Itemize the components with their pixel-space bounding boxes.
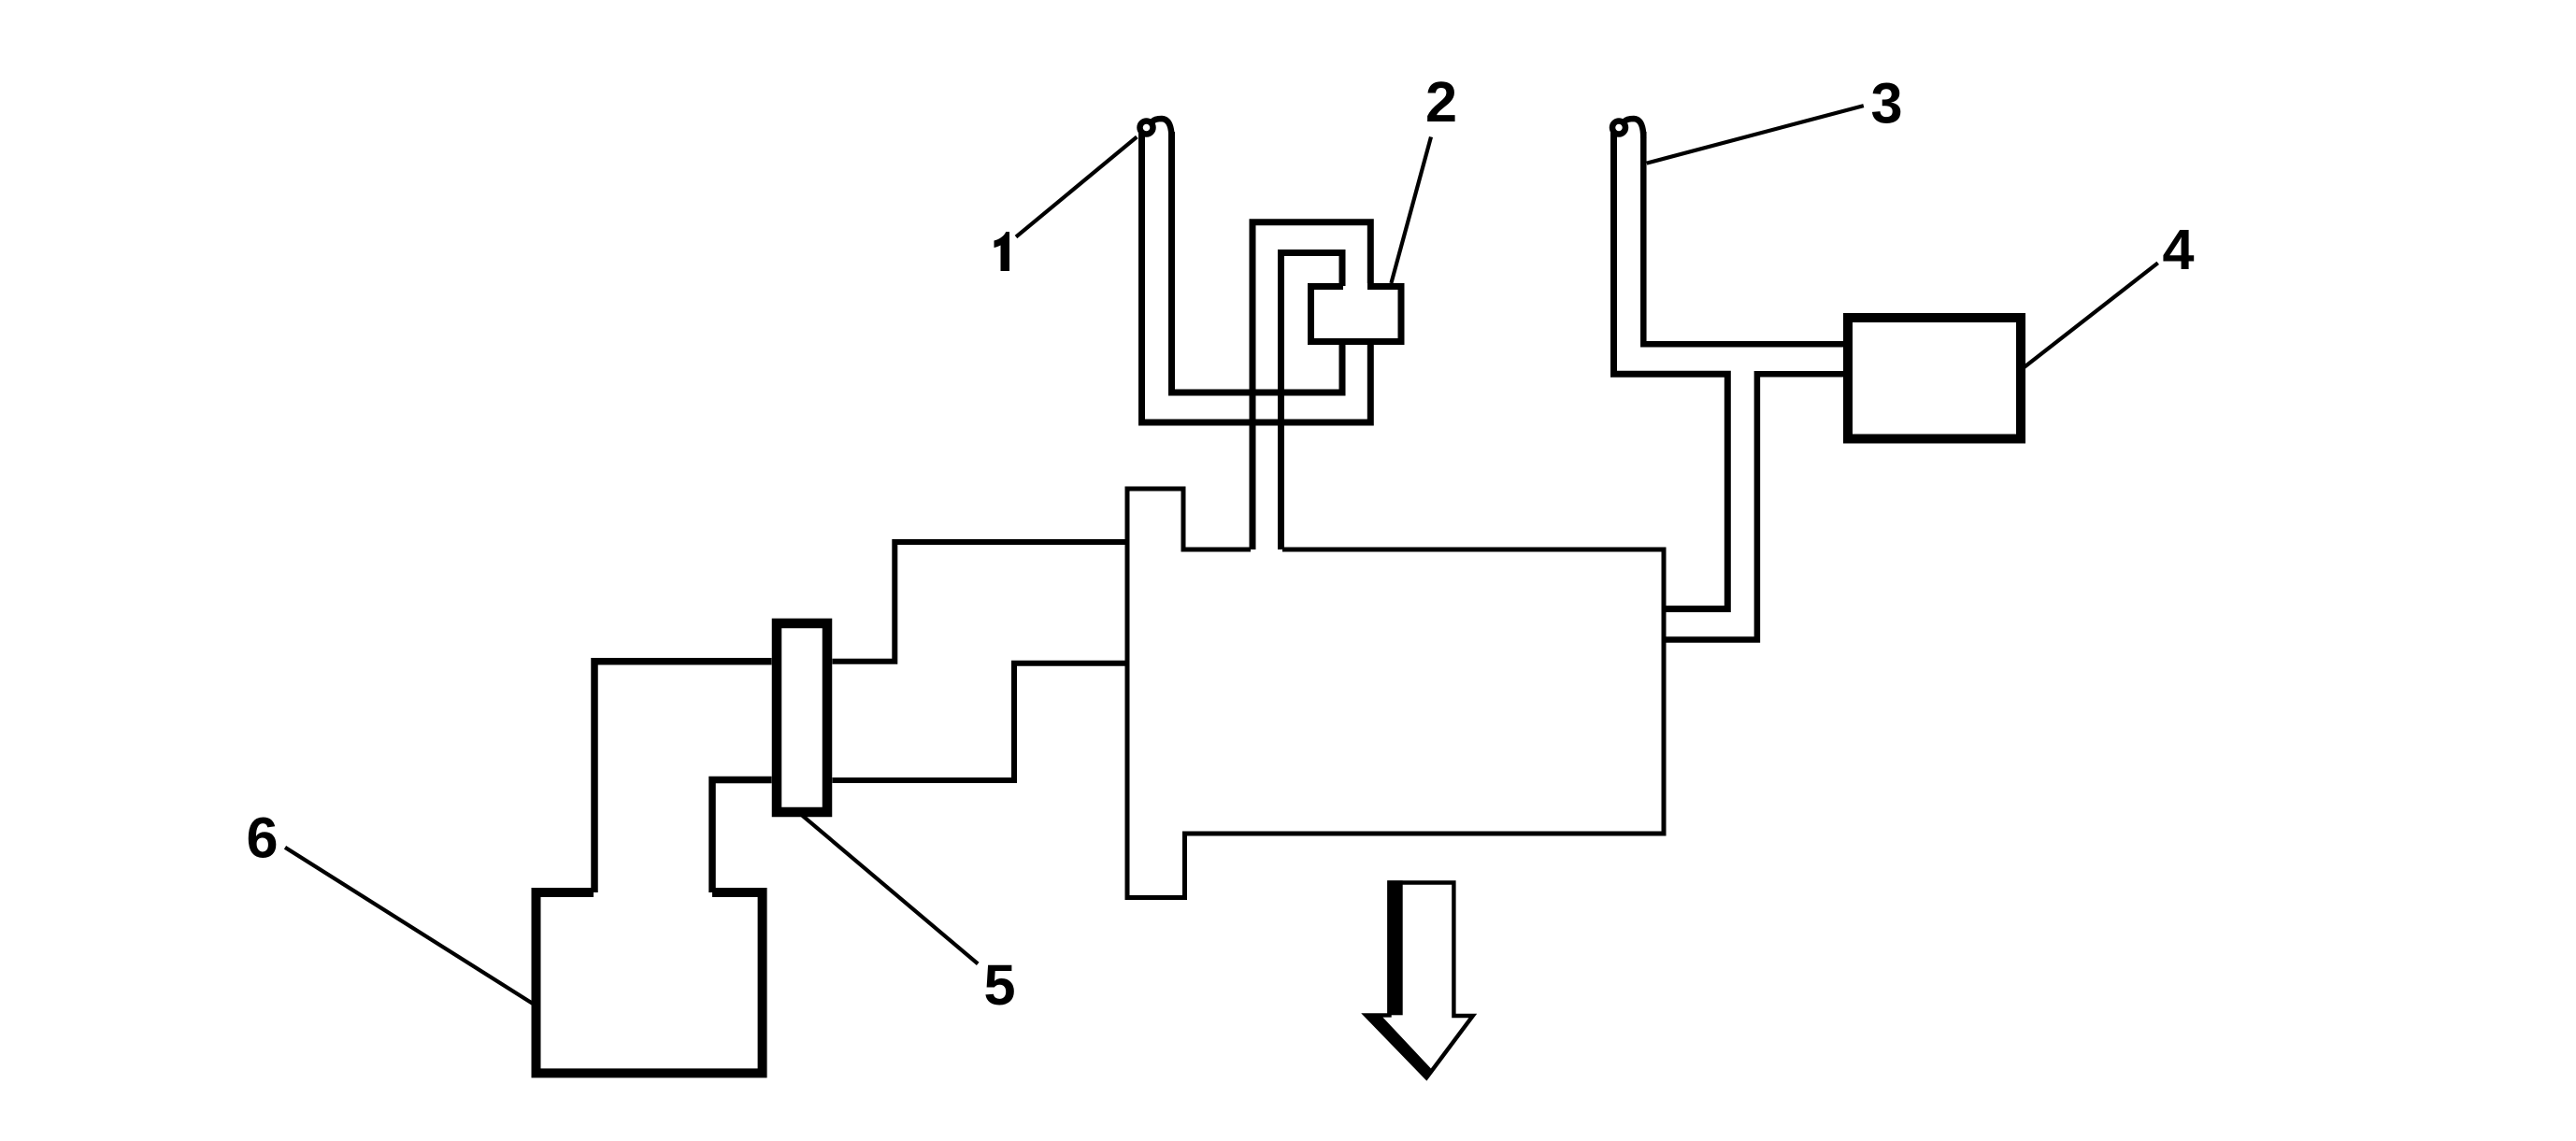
component 4 box [1848, 318, 2021, 439]
hose 1 inner wall: vent tube, bottom run, up to component 2 bottom [1172, 132, 1343, 392]
lower hose from connector 5 to canister flange [833, 663, 1128, 780]
duct inner wall from component 6 up to connector 5 [712, 780, 772, 893]
flow arrow thick left shaft bar [1387, 880, 1403, 1015]
hose 1 rolled end curl [1140, 121, 1153, 135]
hose 3 inner wall: down and right to component 4 [1643, 132, 1847, 344]
svg-text:4: 4 [2163, 218, 2195, 281]
leader line 1 [1016, 137, 1137, 237]
hose 1 outer wall upper loop: from component 2 top over coil top and down into canister port [1252, 222, 1370, 549]
leader line 3 [1647, 106, 1864, 164]
upper hose from connector 5 to canister flange [833, 542, 1128, 662]
svg-text:2: 2 [1425, 70, 1457, 134]
leader line 6 [285, 848, 533, 1004]
component 6 box with duct opening on top [537, 892, 763, 1073]
component 2 box (inline valve) with hose opening on top [1311, 287, 1402, 342]
flow arrow thick left barb diagonal [1366, 1015, 1431, 1077]
hose 3 outer wall: down, right along bottom, tee drop to canister right port upper wall [1614, 132, 1728, 609]
leader line 2 [1391, 137, 1431, 284]
svg-text:3: 3 [1871, 72, 1903, 135]
leader line 5 [798, 812, 978, 963]
leader line 4 [2025, 263, 2158, 366]
duct outer wall from component 6 up to connector 5 [594, 662, 772, 892]
hose 1 outer wall: vent tube down, along bottom, up right side of coil [1142, 132, 1371, 422]
hose 1 inner wall upper loop: from component 2 top, over inner coil top, down canister port pipe [1281, 253, 1343, 550]
hose 3 rolled end curl [1612, 121, 1625, 135]
canister body with mounting flange outline [1127, 489, 1664, 898]
tee drop right wall: from tube bottom wall to canister right port lower wall [1664, 374, 1847, 639]
svg-text:5: 5 [984, 953, 1016, 1017]
connector 5 body [777, 623, 827, 812]
label 1 [995, 232, 1010, 271]
flow arrow outline [1366, 883, 1472, 1078]
svg-text:6: 6 [247, 806, 279, 870]
